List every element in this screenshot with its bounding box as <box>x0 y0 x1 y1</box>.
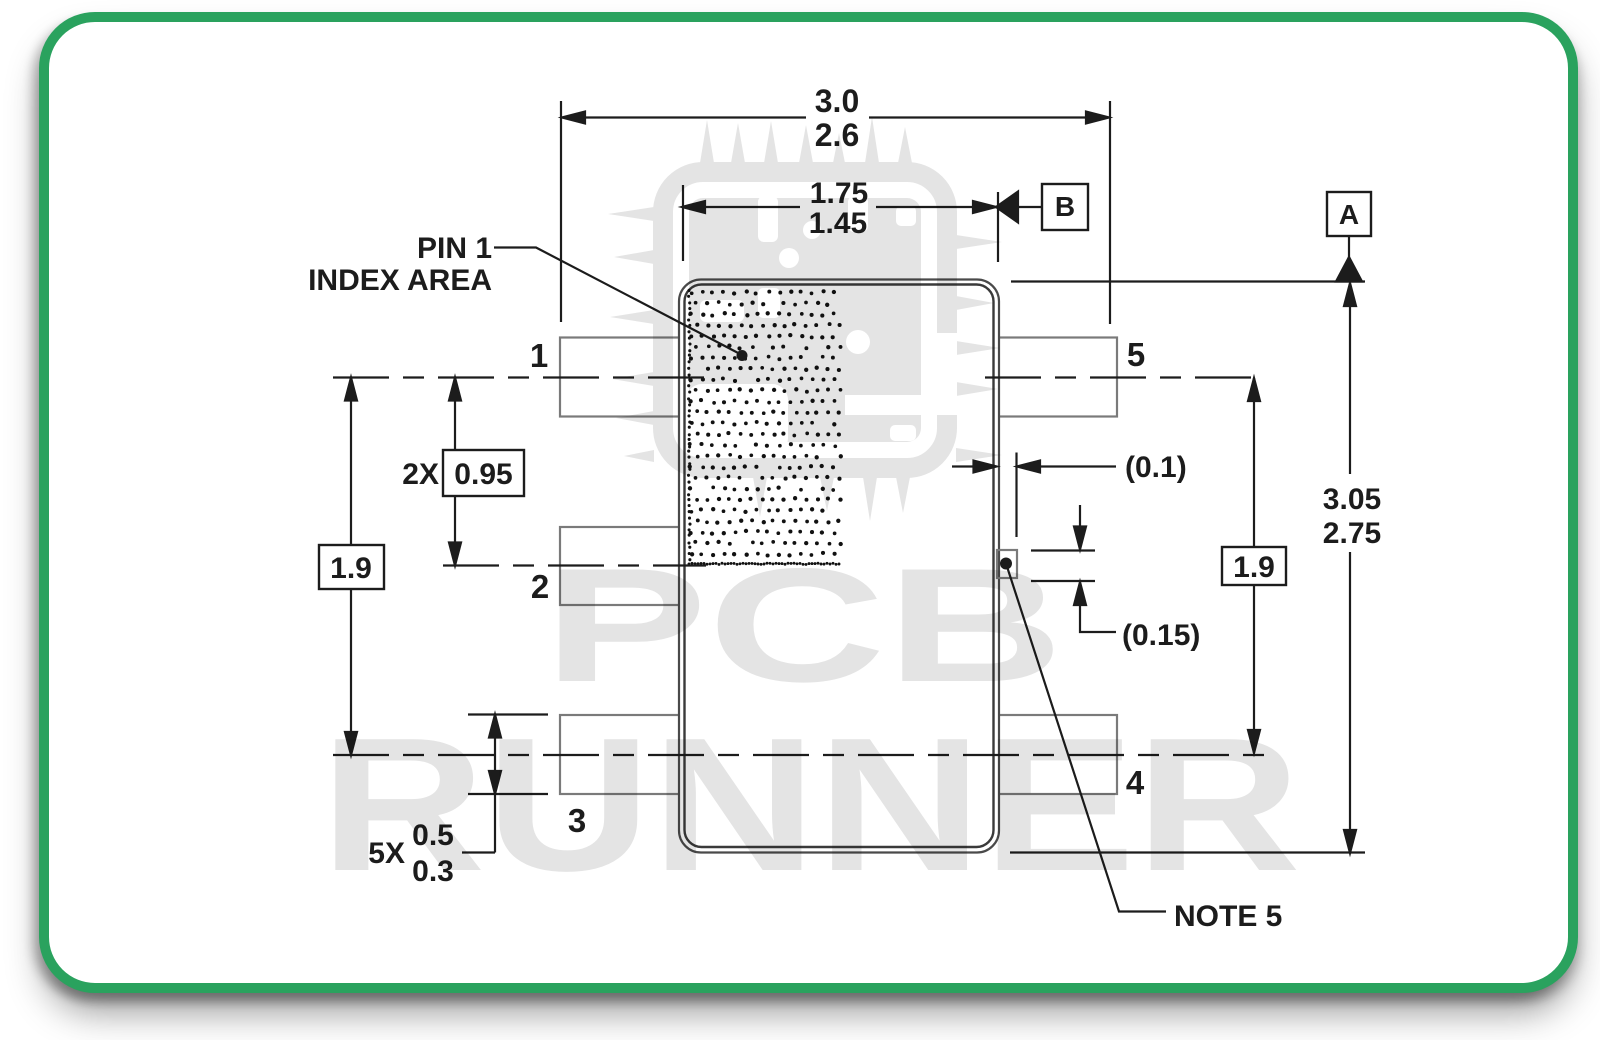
dim 1.9 right box <box>1222 547 1286 585</box>
datum A stem and triangle <box>1348 236 1350 259</box>
svg-text:1.9: 1.9 <box>1233 551 1275 584</box>
dim (0.1) tick line <box>1015 453 1017 538</box>
svg-text:PIN 1: PIN 1 <box>417 232 492 265</box>
dim (0.15) lower arrow and leader <box>1080 604 1116 632</box>
svg-text:1.9: 1.9 <box>330 552 372 585</box>
watermark chip top spikes <box>700 117 912 163</box>
pin 1 index area stipple <box>687 289 843 566</box>
dim 1.75/1.45 extension line right <box>997 192 999 262</box>
svg-text:3.0: 3.0 <box>815 83 859 119</box>
extension line top right (datum A) <box>1011 280 1365 282</box>
extension line bottom right <box>1010 851 1365 853</box>
svg-text:2X: 2X <box>402 458 439 491</box>
dim (0.1) right arrow <box>1041 465 1116 467</box>
centerline pin 2 row <box>443 564 706 566</box>
watermark chip die <box>689 198 921 442</box>
dim 1.9 left line <box>350 378 352 756</box>
centerline pins 1-5 row <box>333 376 1264 378</box>
centerline pins 3-4 row <box>333 754 1264 756</box>
svg-text:5: 5 <box>1127 336 1145 373</box>
dim 1.75/1.45 line <box>683 206 1042 208</box>
dim 1.75/1.45 extension line left <box>682 185 684 261</box>
note 5 leader <box>1006 564 1166 912</box>
dim 1.9 right line <box>1253 378 1255 753</box>
dim 3.0/2.6 extension line left <box>560 101 562 322</box>
pin 3 lead <box>560 715 684 794</box>
package body outer outline <box>679 280 999 853</box>
datum B solid triangle <box>996 192 1018 223</box>
pin 1 lead <box>560 338 684 417</box>
package body inner outline <box>685 285 994 848</box>
svg-text:2.75: 2.75 <box>1323 517 1381 550</box>
svg-text:A: A <box>1339 199 1359 230</box>
pin 5 lead <box>993 338 1117 417</box>
svg-text:RUNNER: RUNNER <box>320 699 1301 911</box>
datum B box <box>1042 184 1088 230</box>
dim 0.95 box <box>443 450 524 496</box>
dim 1.9 left box <box>319 545 384 589</box>
dim (0.15) upper arrow <box>1079 505 1081 528</box>
dim 3.0/2.6 line <box>563 116 1108 118</box>
watermark chip right spikes <box>956 235 1002 462</box>
svg-text:1: 1 <box>530 337 548 374</box>
dim (0.15) edge lines <box>1031 551 1095 582</box>
dim 3.05/2.75 line <box>1349 284 1351 852</box>
dim 3.0/2.6 extension line right <box>1109 101 1111 324</box>
watermark chip traces <box>686 196 957 454</box>
dim 5X arrows <box>462 715 495 853</box>
svg-text:(0.1): (0.1) <box>1125 451 1187 484</box>
pin 4 lead <box>993 715 1117 794</box>
watermark chip left spikes <box>608 207 654 462</box>
dim 2X 0.95 line <box>454 378 456 566</box>
pin1 index leader <box>494 248 742 356</box>
note5 feature square <box>997 550 1017 578</box>
svg-text:(0.15): (0.15) <box>1122 619 1200 652</box>
datum A box <box>1327 192 1371 236</box>
dim 5X edge lines <box>468 715 548 795</box>
svg-text:INDEX AREA: INDEX AREA <box>308 264 492 297</box>
svg-text:0.95: 0.95 <box>454 458 512 491</box>
svg-text:PCB: PCB <box>543 535 1064 716</box>
pin 2 lead <box>560 527 684 605</box>
watermark chip bottom spikes <box>753 477 910 521</box>
dim (0.1) left arrow <box>952 465 974 467</box>
svg-text:3.05: 3.05 <box>1323 483 1381 516</box>
watermark chip logo outer ring <box>663 172 947 468</box>
svg-text:B: B <box>1055 191 1075 222</box>
